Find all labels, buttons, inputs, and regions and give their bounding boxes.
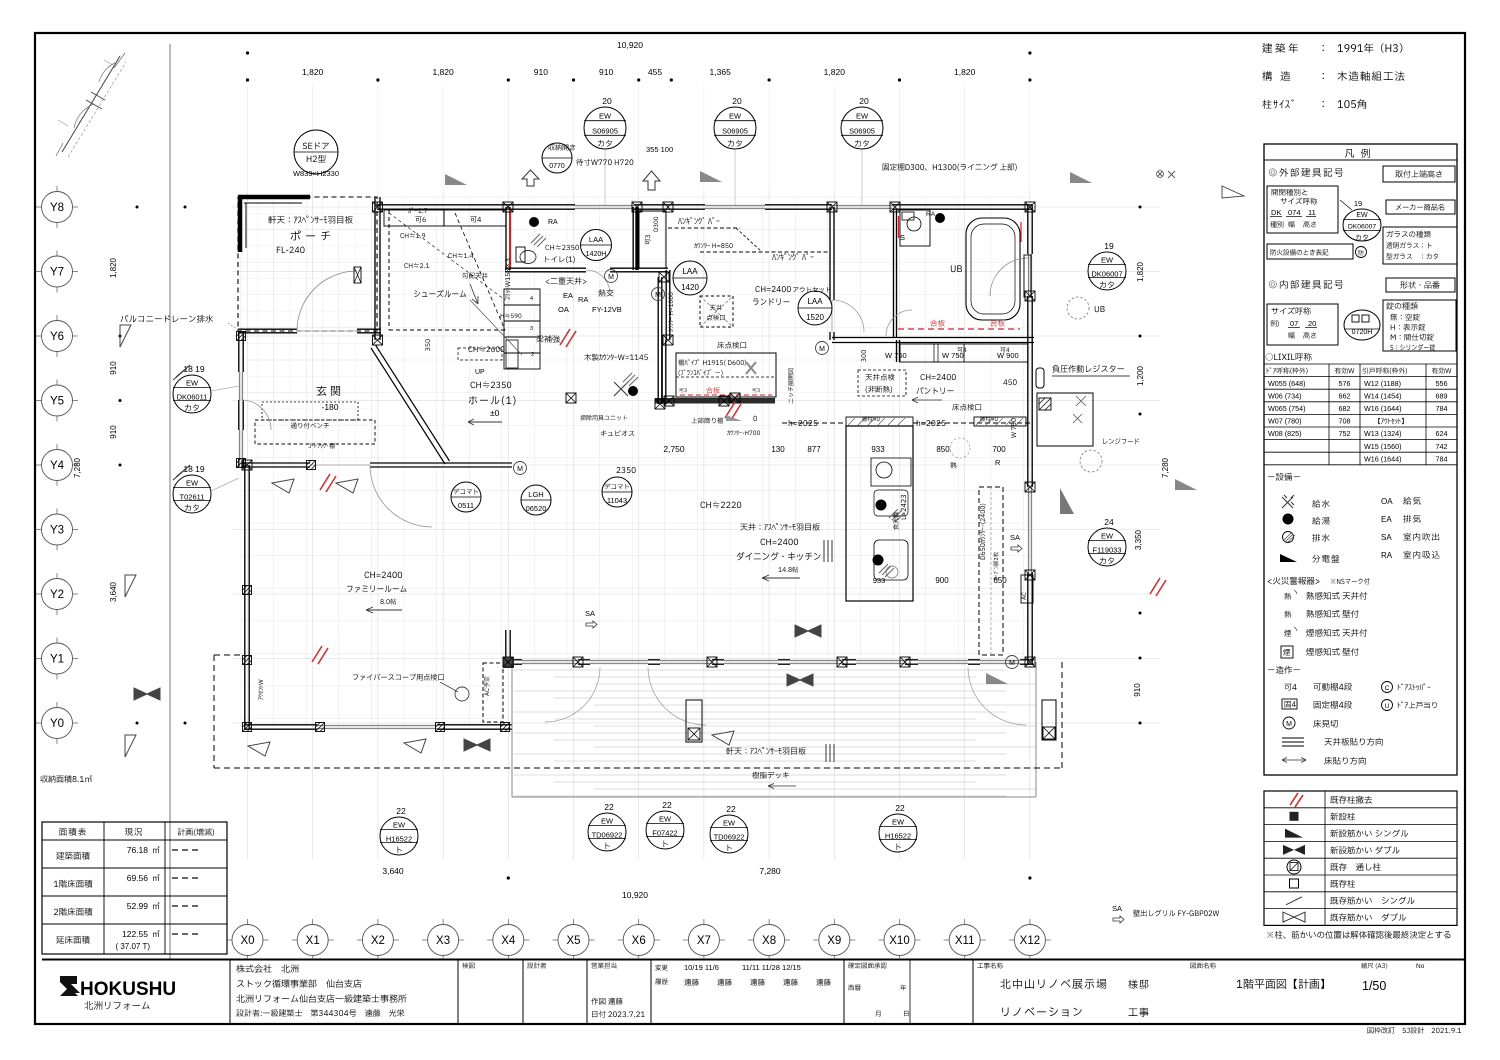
svg-text:W055 (648): W055 (648)	[1268, 379, 1306, 388]
svg-text:10/19 11/6: 10/19 11/6	[684, 963, 719, 972]
svg-text:EW: EW	[723, 819, 736, 828]
svg-text:TD06922: TD06922	[592, 830, 623, 839]
svg-text:7,280: 7,280	[73, 457, 82, 478]
svg-text:900: 900	[935, 576, 949, 585]
svg-text:C: C	[1385, 685, 1390, 692]
svg-text:X12: X12	[1020, 935, 1040, 947]
svg-text:X1: X1	[306, 935, 320, 947]
svg-text:X10: X10	[889, 935, 909, 947]
svg-text:19: 19	[1354, 199, 1362, 208]
svg-text:M: M	[517, 466, 523, 473]
svg-text:S06905: S06905	[849, 127, 875, 136]
svg-text:3,640: 3,640	[382, 866, 404, 876]
svg-text:W 750: W 750	[885, 351, 907, 360]
svg-text:76.18: 76.18	[127, 845, 149, 855]
svg-text:LAA: LAA	[807, 297, 823, 306]
svg-text:S06905: S06905	[592, 127, 618, 136]
svg-text:TD06922: TD06922	[714, 832, 745, 841]
window ID circles (top EW S06905)	[584, 107, 626, 149]
svg-text:355 100: 355 100	[646, 145, 673, 154]
svg-text:M: M	[1009, 660, 1015, 667]
svg-text:UP: UP	[475, 369, 485, 376]
svg-text:662: 662	[1339, 391, 1351, 400]
svg-text:F07422: F07422	[652, 828, 677, 837]
svg-text:933: 933	[873, 576, 886, 585]
svg-text:±0: ±0	[490, 408, 500, 418]
svg-text:1,820: 1,820	[824, 67, 846, 77]
legend (hanrei) box	[1264, 144, 1457, 775]
svg-text:850: 850	[936, 445, 950, 454]
svg-text:556: 556	[1436, 379, 1448, 388]
svg-text:X5: X5	[566, 935, 580, 947]
svg-text:OA: OA	[558, 305, 569, 314]
deck door swing arcs	[214, 655, 1062, 797]
svg-text:122.55: 122.55	[122, 929, 148, 939]
svg-text:10,920: 10,920	[617, 40, 643, 50]
svg-text:4: 4	[530, 296, 533, 302]
right wall window circle	[1088, 252, 1126, 290]
svg-text:RA: RA	[1381, 551, 1393, 560]
building info text	[1262, 43, 1404, 109]
svg-text:OA: OA	[1381, 497, 1393, 506]
svg-text:EW: EW	[1356, 212, 1368, 219]
svg-text:W16 (1644): W16 (1644)	[1364, 454, 1402, 463]
svg-text:W13 (1324): W13 (1324)	[1364, 429, 1402, 438]
corner diagonal survey mark	[62, 56, 120, 152]
svg-text:LAA: LAA	[589, 235, 603, 244]
svg-text:SA: SA	[1381, 533, 1392, 542]
faint grid lines	[232, 85, 1160, 860]
svg-text:700: 700	[992, 445, 1006, 454]
svg-text:EW: EW	[599, 112, 612, 121]
SE door circle	[293, 130, 339, 178]
svg-text:0770: 0770	[549, 163, 565, 170]
svg-text:1,820: 1,820	[432, 67, 454, 77]
svg-text:784: 784	[1436, 454, 1448, 463]
svg-text:W08 (825): W08 (825)	[1268, 429, 1302, 438]
svg-text:-180: -180	[321, 402, 338, 412]
svg-text:22: 22	[396, 806, 406, 816]
svg-text:Y1: Y1	[50, 654, 64, 666]
LIXIL size table	[1264, 364, 1457, 465]
right lower window circle	[1088, 528, 1126, 566]
structure symbol table	[1264, 791, 1457, 925]
svg-text:576: 576	[1339, 379, 1351, 388]
svg-text:1,820: 1,820	[954, 67, 976, 77]
svg-text:7,280: 7,280	[1161, 457, 1170, 478]
svg-text:933: 933	[871, 445, 885, 454]
bowtie brace symbols	[120, 171, 1197, 757]
svg-text:Y3: Y3	[50, 525, 64, 537]
svg-text:69.56: 69.56	[127, 873, 149, 883]
svg-text:HOKUSHU: HOKUSHU	[80, 979, 176, 1000]
svg-text:1,200: 1,200	[1136, 365, 1145, 386]
svg-text:RA: RA	[578, 295, 588, 304]
svg-text:11: 11	[1308, 208, 1316, 217]
svg-text:2,750: 2,750	[663, 444, 685, 454]
svg-text:0720H: 0720H	[1352, 329, 1373, 336]
svg-text:S06905: S06905	[722, 127, 748, 136]
svg-text:RA: RA	[926, 211, 936, 218]
svg-text:Y4: Y4	[50, 460, 65, 472]
svg-text:EW: EW	[1101, 532, 1114, 541]
svg-text:784: 784	[1436, 404, 1448, 413]
svg-text:130: 130	[771, 445, 785, 454]
svg-text:22: 22	[604, 802, 614, 812]
svg-text:X11: X11	[955, 935, 975, 947]
svg-text:SA: SA	[585, 609, 595, 618]
svg-text:EW: EW	[1101, 255, 1114, 264]
svg-text:0511: 0511	[458, 501, 474, 510]
AC dashed box at deck corner	[483, 277, 1130, 722]
svg-text:Y2: Y2	[50, 589, 64, 601]
svg-text:Y0: Y0	[50, 718, 64, 730]
title block	[60, 960, 1425, 1023]
svg-text:910: 910	[109, 425, 118, 439]
HOKUSHU logo	[60, 976, 80, 993]
svg-text:Y7: Y7	[50, 267, 64, 279]
svg-text:07: 07	[1290, 319, 1298, 328]
svg-text:11043: 11043	[607, 496, 627, 505]
svg-text:DK06011: DK06011	[177, 392, 208, 401]
svg-text:X9: X9	[827, 935, 841, 947]
bottom window circles	[380, 817, 418, 855]
svg-text:11/11 11/28 12/15: 11/11 11/28 12/15	[742, 963, 801, 972]
svg-text:EW: EW	[186, 378, 199, 387]
svg-text:7,280: 7,280	[759, 866, 781, 876]
svg-text:W07 (780): W07 (780)	[1268, 417, 1302, 426]
svg-text:Y6: Y6	[50, 331, 64, 343]
svg-text:742: 742	[1436, 442, 1448, 451]
storage door circle	[542, 143, 673, 173]
svg-text:910: 910	[109, 361, 118, 375]
svg-text:X6: X6	[632, 935, 646, 947]
svg-text:X2: X2	[371, 935, 385, 947]
svg-text:877: 877	[807, 445, 821, 454]
left wall window circles	[173, 375, 211, 413]
svg-text:910: 910	[1133, 683, 1142, 697]
svg-text:20: 20	[732, 96, 742, 106]
svg-text:3,640: 3,640	[109, 581, 118, 602]
svg-text:22: 22	[895, 803, 905, 813]
svg-text:LGH: LGH	[528, 490, 543, 499]
svg-text:EW: EW	[186, 478, 199, 487]
svg-text:650: 650	[993, 576, 1007, 585]
equipment legend section	[1268, 473, 1440, 765]
svg-text:DK06007: DK06007	[1091, 269, 1122, 278]
svg-text:1,365: 1,365	[710, 67, 732, 77]
svg-text:R: R	[995, 458, 1001, 467]
svg-text:M: M	[608, 274, 614, 281]
structure note	[1267, 931, 1450, 939]
porch/shoes-room dividing wall (X2)	[238, 197, 381, 340]
svg-text:24: 24	[1104, 517, 1114, 527]
svg-text:T02611: T02611	[180, 492, 205, 501]
svg-text:X3: X3	[436, 935, 450, 947]
room and annotation labels	[40, 163, 1219, 923]
family room / deck connecting wall (X4)	[239, 205, 1034, 729]
svg-text:3: 3	[530, 326, 533, 332]
svg-text:X8: X8	[762, 935, 776, 947]
svg-text:910: 910	[534, 67, 548, 77]
svg-text:W06 (734): W06 (734)	[1268, 391, 1302, 400]
svg-text:EW: EW	[856, 112, 869, 121]
pantry walls	[505, 207, 1034, 404]
svg-text:SA: SA	[1010, 533, 1020, 542]
svg-text:( 37.07 T): ( 37.07 T)	[115, 942, 150, 951]
svg-text:20: 20	[602, 96, 612, 106]
svg-text:10,920: 10,920	[622, 890, 648, 900]
svg-text:FY-12VB: FY-12VB	[592, 305, 622, 314]
svg-text:W14 (1454): W14 (1454)	[1364, 391, 1402, 400]
svg-text:689: 689	[1436, 391, 1448, 400]
svg-text:074: 074	[1288, 208, 1301, 217]
interior door circles	[581, 230, 833, 326]
svg-text:1420H: 1420H	[586, 251, 607, 258]
svg-text:DK06007: DK06007	[1348, 224, 1377, 231]
svg-text:EA: EA	[1381, 515, 1392, 524]
svg-text:W839×H2330: W839×H2330	[293, 169, 339, 178]
svg-text:EW: EW	[659, 815, 672, 824]
svg-text:F119033: F119033	[1092, 545, 1121, 554]
svg-text:M: M	[1286, 721, 1292, 728]
svg-text:X0: X0	[240, 935, 254, 947]
svg-text:1420: 1420	[681, 283, 699, 292]
svg-text:22: 22	[662, 800, 672, 810]
svg-text:W16 (1644): W16 (1644)	[1364, 404, 1402, 413]
svg-text:M: M	[819, 346, 825, 353]
svg-text:3,350: 3,350	[1134, 529, 1143, 550]
title block top rule	[42, 959, 1465, 961]
svg-text:H16522: H16522	[885, 831, 911, 840]
svg-text:22: 22	[726, 804, 736, 814]
svg-text:W065 (754): W065 (754)	[1268, 404, 1306, 413]
svg-text:1520: 1520	[806, 313, 824, 322]
svg-text:M: M	[655, 292, 661, 299]
svg-text:1,820: 1,820	[1136, 261, 1145, 282]
svg-text:910: 910	[599, 67, 613, 77]
svg-text:W 900: W 900	[997, 351, 1019, 360]
small dashed UB/range circles	[241, 170, 1244, 701]
svg-text:X4: X4	[501, 935, 516, 947]
svg-text:752: 752	[1339, 429, 1351, 438]
svg-text:EW: EW	[729, 112, 742, 121]
svg-text:1/50: 1/50	[1362, 979, 1386, 993]
svg-text:X7: X7	[697, 935, 711, 947]
svg-text:20: 20	[1308, 319, 1316, 328]
svg-text:1,820: 1,820	[109, 257, 118, 278]
svg-text:W15 (1560): W15 (1560)	[1364, 442, 1402, 451]
svg-text:Y5: Y5	[50, 396, 64, 408]
svg-text:W 750: W 750	[942, 351, 964, 360]
margin separator line	[169, 44, 171, 959]
svg-text:DK: DK	[1271, 208, 1281, 217]
svg-text:EW: EW	[892, 818, 905, 827]
svg-text:RA: RA	[548, 219, 558, 226]
svg-text:455: 455	[648, 67, 662, 77]
Y-axis grid bubbles Y8..Y0	[36, 186, 78, 744]
svg-text:682: 682	[1339, 404, 1351, 413]
svg-text:No: No	[1416, 963, 1425, 970]
svg-text:W12 (1188): W12 (1188)	[1364, 379, 1401, 388]
svg-text:06520: 06520	[526, 504, 547, 513]
svg-text:S: S	[900, 233, 905, 242]
frame revision note	[1368, 1027, 1462, 1033]
svg-text:EW: EW	[393, 821, 406, 830]
svg-text:EW: EW	[601, 817, 614, 826]
svg-text:1,820: 1,820	[302, 67, 324, 77]
svg-text:U: U	[1385, 703, 1390, 710]
svg-text:H16522: H16522	[386, 834, 412, 843]
top dimension row	[246, 67, 1032, 82]
genkan closet dashed (bench/coat)	[241, 210, 540, 467]
svg-text:52.99: 52.99	[127, 901, 149, 911]
svg-text:EA: EA	[563, 291, 573, 300]
X-axis grid bubbles X0..X12	[227, 919, 1051, 959]
area table	[42, 822, 227, 954]
svg-text:Y8: Y8	[50, 202, 64, 214]
svg-text:19: 19	[1104, 241, 1114, 251]
svg-text:LAA: LAA	[682, 267, 698, 276]
svg-text:2: 2	[531, 352, 534, 358]
svg-text:624: 624	[1436, 429, 1448, 438]
svg-text:SA: SA	[1112, 904, 1122, 913]
leader ticks from circles to wall	[604, 150, 606, 205]
svg-text:20: 20	[859, 96, 869, 106]
svg-text:708: 708	[1339, 417, 1351, 426]
